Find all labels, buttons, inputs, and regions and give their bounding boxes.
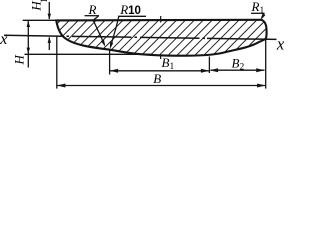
svg-text:B: B (153, 71, 161, 86)
dimension H1 (top line to axis) (48, 2, 50, 50)
svg-text:x: x (276, 34, 285, 53)
extension line (bottom tangent for H) (25, 53, 153, 55)
extension line right (B, B2) (265, 39, 267, 89)
tick on curve (bottom) (160, 55, 162, 59)
svg-text:1: 1 (39, 0, 49, 3)
svg-text:R: R (88, 2, 97, 17)
dimension B (57, 85, 266, 87)
dimension B2 (211, 69, 265, 71)
svg-text:B1: B1 (162, 55, 175, 72)
extension line (top, left of profile) (23, 19, 57, 21)
dimension H (top line to bottom tangent) (27, 21, 29, 68)
extension line shared B1/B2 (208, 57, 210, 74)
svg-text:x: x (0, 31, 7, 48)
svg-text:B2: B2 (232, 56, 245, 73)
profile outline (56, 20, 266, 56)
tick on top line (160, 16, 162, 23)
extension line B1 left (109, 50, 111, 75)
axis line x-x (dash-dot centerline) (4, 35, 207, 38)
svg-text:H: H (11, 55, 26, 66)
dimension B1 (110, 70, 210, 72)
svg-text:R10: R10 (119, 2, 141, 17)
extension line left (B) (56, 37, 58, 89)
part cross-section (hatched profile) (40, 10, 280, 62)
